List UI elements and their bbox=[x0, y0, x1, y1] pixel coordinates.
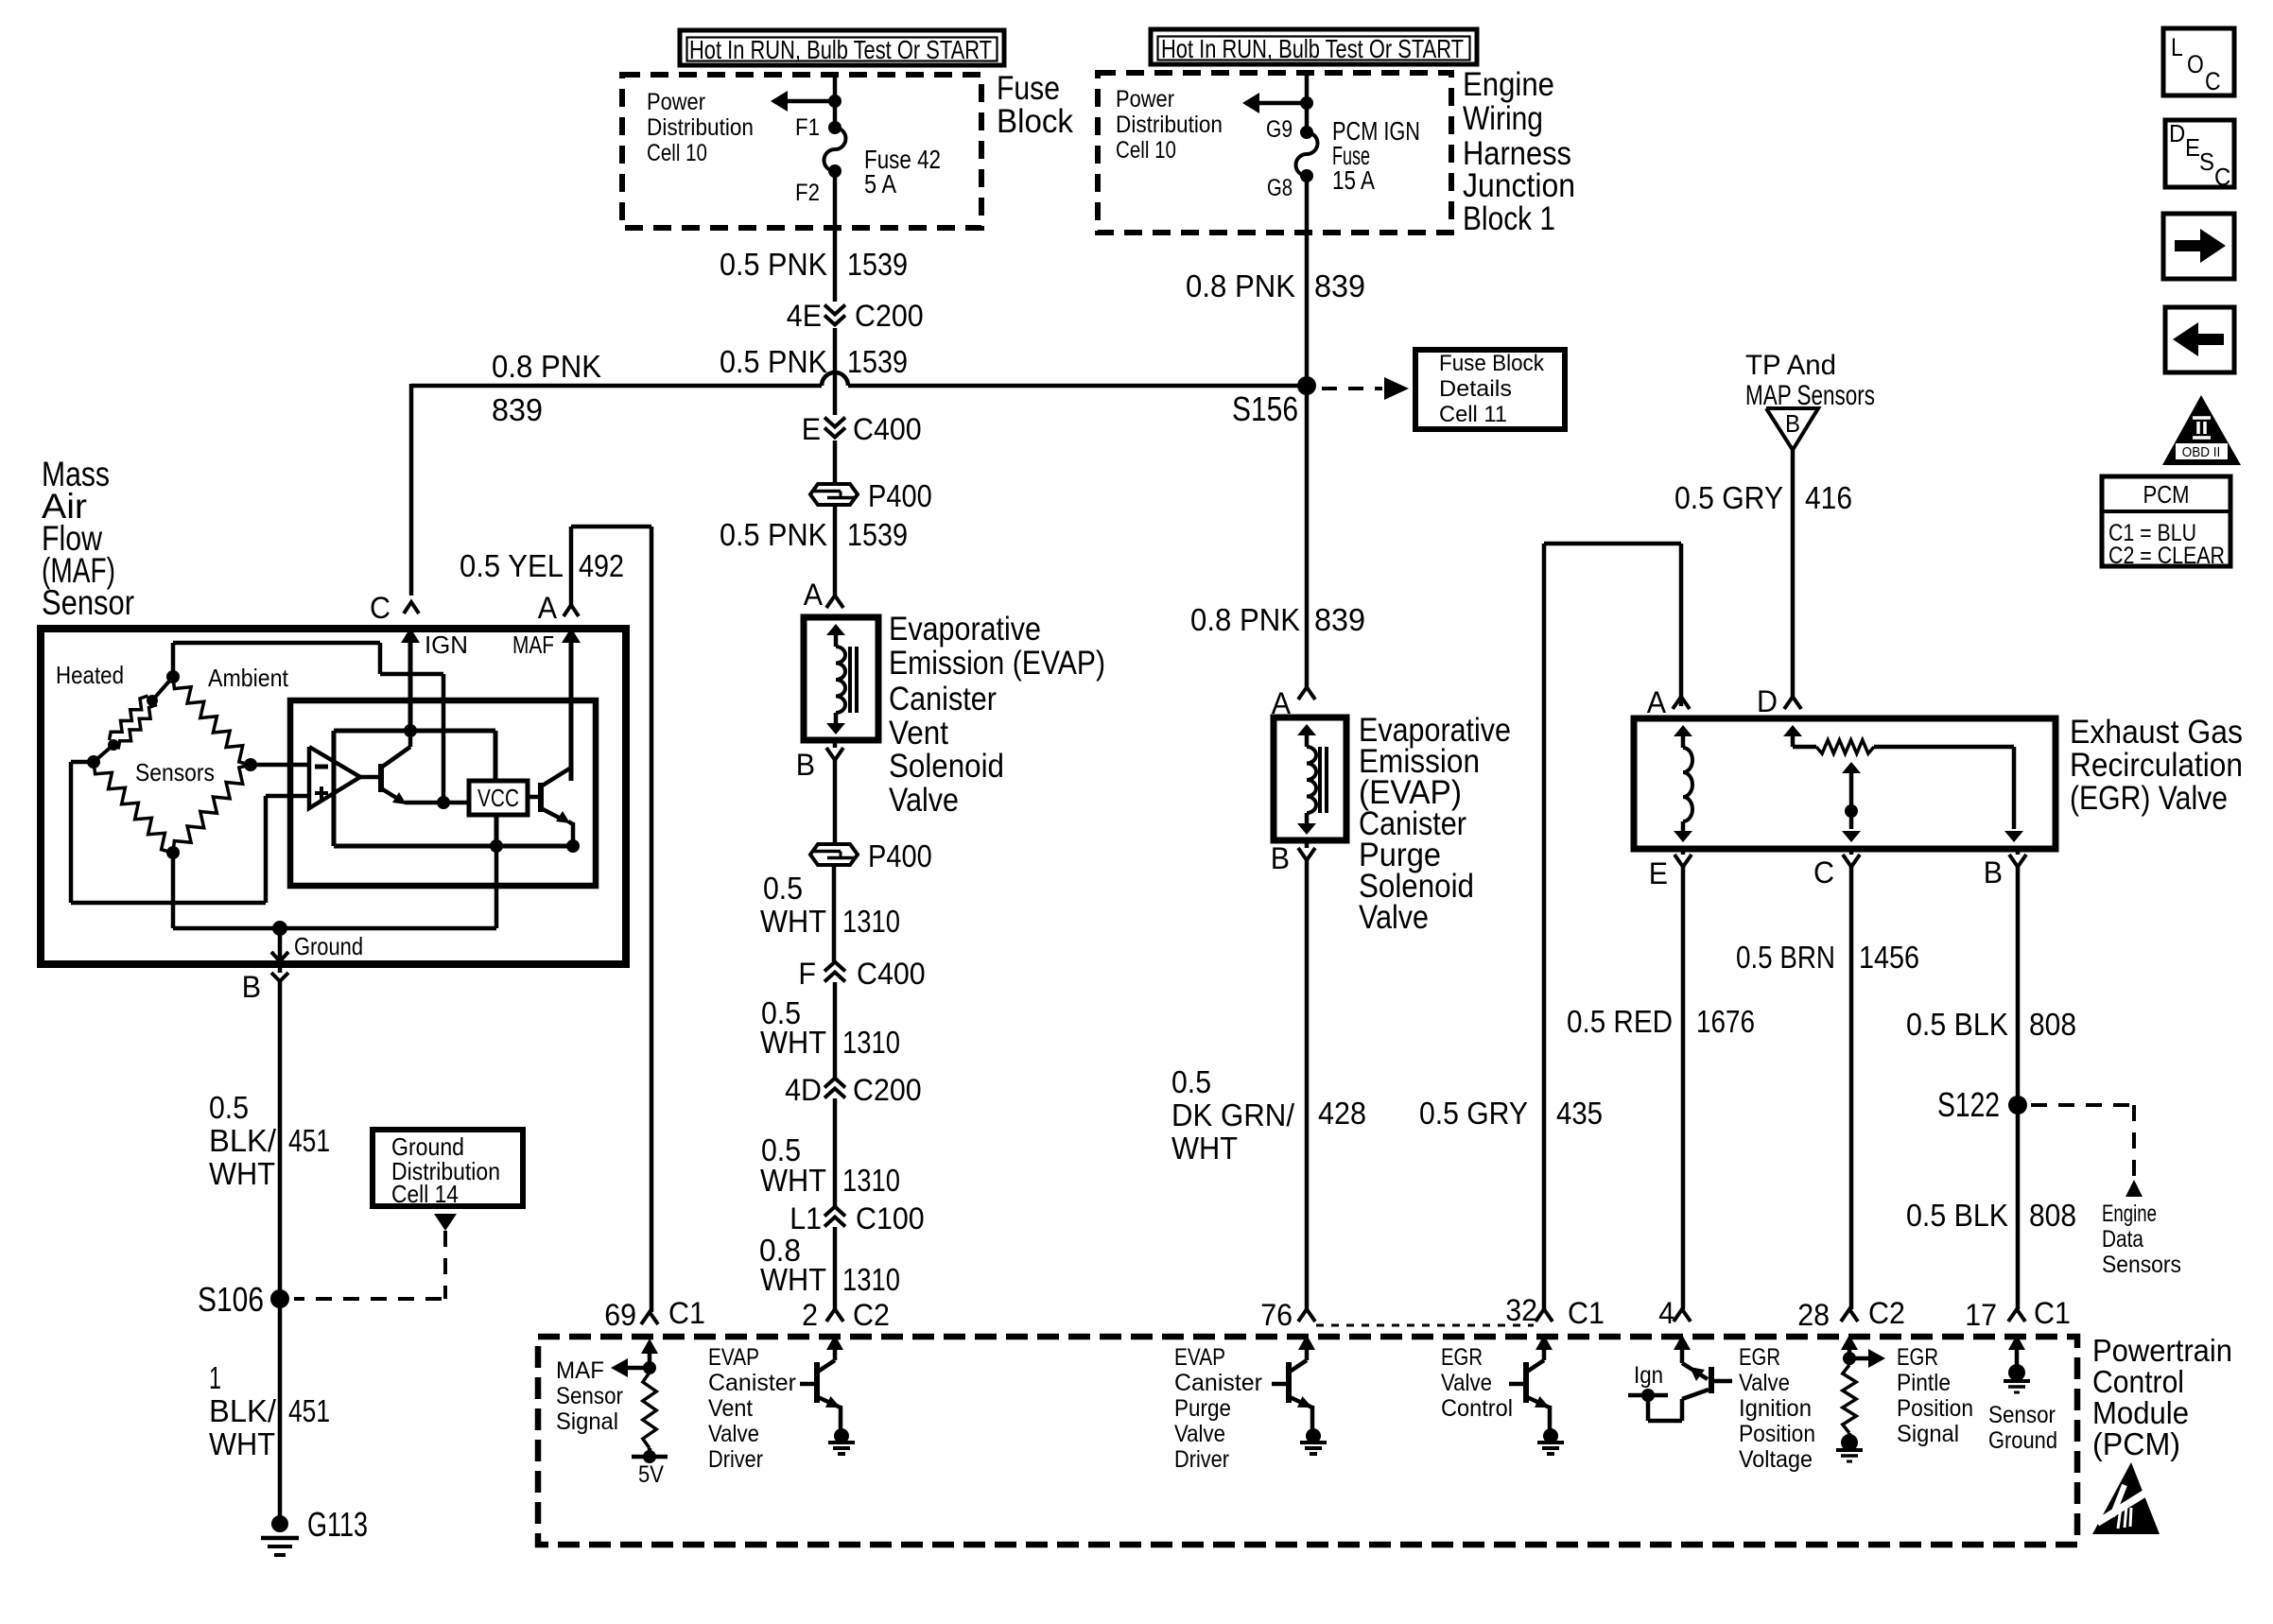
svg-text:1676: 1676 bbox=[1696, 1004, 1755, 1039]
svg-text:OBD II: OBD II bbox=[2182, 444, 2221, 460]
EVAP canister purge solenoid valve box bbox=[1274, 717, 1346, 840]
svg-text:4D: 4D bbox=[785, 1073, 822, 1107]
label Power Distribution Cell 10 (fuse block) bbox=[647, 89, 754, 166]
bridge node left bbox=[87, 755, 100, 769]
splice S122 bbox=[1937, 1085, 2027, 1124]
label EVAP Canister Purge Valve Driver bbox=[1174, 1344, 1262, 1473]
svg-text:Purge: Purge bbox=[1174, 1395, 1231, 1422]
svg-text:G8: G8 bbox=[1267, 175, 1293, 201]
svg-text:IGN: IGN bbox=[425, 631, 468, 659]
bridge node bottom bbox=[166, 846, 180, 859]
svg-text:B: B bbox=[796, 748, 815, 782]
dashed link cell14 to S106 bbox=[294, 1231, 445, 1299]
svg-text:Sensor: Sensor bbox=[42, 583, 134, 622]
wire 1 BLK/WHT 451 bbox=[278, 1299, 283, 1524]
op-amp U1 bbox=[309, 747, 360, 808]
svg-text:Driver: Driver bbox=[1174, 1446, 1229, 1473]
svg-text:Voltage: Voltage bbox=[1739, 1446, 1813, 1473]
terminal A EVAP vent bbox=[804, 578, 843, 612]
terminal C EGR bbox=[1813, 849, 1860, 890]
prev arrow icon bbox=[2165, 307, 2234, 372]
svg-text:B: B bbox=[242, 970, 261, 1004]
junction emitter rail bbox=[437, 796, 450, 809]
PCM dashed box bbox=[538, 1337, 2077, 1545]
svg-text:D: D bbox=[1757, 684, 1778, 718]
wire 0.8 PNK 839 G8 to S156 bbox=[1305, 176, 1310, 386]
wire 0.5 PNK 1539 fuse to C200 bbox=[833, 171, 838, 302]
label 0.5 PNK 1539 (1) bbox=[720, 247, 908, 282]
EVAP canister vent solenoid valve box bbox=[804, 617, 878, 740]
svg-text:5 A: 5 A bbox=[864, 169, 896, 199]
svg-text:32: 32 bbox=[1505, 1293, 1537, 1327]
resistor bridge lower-right bbox=[173, 765, 251, 853]
svg-text:Power: Power bbox=[647, 89, 705, 115]
TP and MAP sensors label bbox=[1745, 350, 1875, 411]
wire 0.8 WHT 1310 (d) bbox=[833, 1227, 838, 1309]
EGR pot right lead bbox=[1874, 747, 2023, 842]
label 0.5 GRY 435 bbox=[1419, 1096, 1603, 1131]
svg-text:Ignition: Ignition bbox=[1739, 1395, 1812, 1422]
svg-text:Canister: Canister bbox=[1174, 1370, 1262, 1396]
svg-text:Sensor: Sensor bbox=[1988, 1402, 2056, 1428]
svg-text:EVAP: EVAP bbox=[708, 1344, 759, 1371]
fuse block dashed box bbox=[622, 75, 981, 228]
label 0.5 BRN 1456 bbox=[1736, 940, 1919, 975]
vent solenoid core bbox=[850, 647, 857, 713]
svg-text:1539: 1539 bbox=[847, 344, 908, 379]
label Exhaust Gas Recirculation (EGR) Valve bbox=[2070, 714, 2243, 817]
connector P400 (2) bbox=[810, 838, 932, 873]
svg-text:C: C bbox=[2205, 67, 2221, 95]
svg-text:C1: C1 bbox=[668, 1296, 705, 1330]
svg-text:76: 76 bbox=[1260, 1298, 1293, 1332]
ESD warning symbol bbox=[2092, 1462, 2160, 1534]
svg-text:15 A: 15 A bbox=[1332, 165, 1375, 195]
svg-text:Fuse Block: Fuse Block bbox=[1439, 351, 1545, 376]
svg-text:EGR: EGR bbox=[1441, 1344, 1483, 1371]
svg-text:Engine: Engine bbox=[1463, 66, 1554, 103]
svg-text:PCM: PCM bbox=[2143, 480, 2190, 509]
label Evaporative Emission (EVAP) Canister Vent Solenoid Valve bbox=[889, 611, 1105, 819]
pin 2 C2 bbox=[802, 1298, 890, 1332]
hot-in-run label box 2 bbox=[1151, 29, 1477, 64]
purge solenoid core bbox=[1320, 747, 1327, 813]
svg-text:Valve: Valve bbox=[1739, 1370, 1790, 1396]
wire bridge left node to op-amp plus bbox=[71, 762, 309, 903]
transistor EGR ignition voltage (PNP) bbox=[1628, 1335, 1732, 1421]
svg-text:Details: Details bbox=[1439, 376, 1512, 402]
wire vent B to P400 bbox=[833, 760, 838, 842]
svg-text:839: 839 bbox=[1314, 602, 1365, 637]
label Power Distribution Cell 10 (junction block) bbox=[1116, 86, 1223, 164]
svg-text:S122: S122 bbox=[1937, 1085, 2000, 1124]
svg-text:Hot In RUN, Bulb Test Or START: Hot In RUN, Bulb Test Or START bbox=[1161, 34, 1464, 63]
label Evaporative Emission (EVAP) Canister Purge Solenoid Valve bbox=[1359, 712, 1511, 936]
wire bridge bottom to ground bus bbox=[173, 853, 280, 928]
svg-text:C1: C1 bbox=[2034, 1296, 2071, 1330]
wire 0.5 BRN 1456 EGR C to pin 28 bbox=[1849, 867, 1854, 1309]
arrow to power distribution cell 10 bbox=[771, 91, 842, 112]
label 0.5 YEL 492 bbox=[460, 548, 624, 583]
svg-text:O: O bbox=[2187, 50, 2204, 78]
wire pcm-ign feed from hot bus bbox=[1305, 73, 1310, 132]
svg-text:E: E bbox=[2185, 133, 2200, 162]
svg-text:WHT: WHT bbox=[760, 1163, 826, 1198]
transistor Q1 bbox=[360, 731, 469, 804]
terminal A EVAP purge bbox=[1272, 686, 1315, 720]
terminal B EGR bbox=[1984, 849, 2026, 890]
svg-text:F: F bbox=[798, 957, 816, 991]
svg-text:Emission (EVAP): Emission (EVAP) bbox=[889, 645, 1105, 682]
wire C400 to P400 bbox=[833, 441, 838, 482]
svg-text:DK GRN/: DK GRN/ bbox=[1171, 1097, 1295, 1132]
svg-text:Fuse: Fuse bbox=[997, 70, 1060, 107]
svg-text:0.5 RED: 0.5 RED bbox=[1567, 1004, 1673, 1039]
label 1 BLK/WHT 451 (2) bbox=[209, 1360, 330, 1461]
resistor heated (parallel pair) bbox=[94, 677, 173, 762]
label Heated bbox=[56, 661, 124, 689]
svg-text:S156: S156 bbox=[1232, 389, 1298, 428]
svg-text:0.5 BLK: 0.5 BLK bbox=[1906, 1198, 2008, 1233]
svg-text:S106: S106 bbox=[198, 1280, 264, 1319]
wire 0.5 BLK/WHT 451 bbox=[278, 981, 283, 1299]
wire 0.5 RED 1676 EGR E to pin 4 bbox=[1681, 867, 1686, 1309]
svg-text:EGR: EGR bbox=[1739, 1344, 1780, 1371]
svg-text:808: 808 bbox=[2029, 1007, 2076, 1042]
svg-text:D: D bbox=[2169, 119, 2185, 147]
svg-text:Pintle: Pintle bbox=[1897, 1370, 1951, 1396]
arrow to power distribution cell 10 (2) bbox=[1242, 93, 1313, 113]
label EGR Valve Control bbox=[1441, 1344, 1513, 1422]
VCC box U2 bbox=[469, 781, 528, 815]
svg-text:Valve: Valve bbox=[708, 1421, 759, 1447]
svg-text:Solenoid: Solenoid bbox=[889, 748, 1004, 785]
svg-text:C200: C200 bbox=[855, 299, 924, 333]
svg-text:C2: C2 bbox=[1868, 1296, 1905, 1330]
wire 0.5 BLK 808 EGR B to pin 17 bbox=[2016, 867, 2021, 1309]
ground G113 bbox=[261, 1505, 368, 1555]
svg-text:Valve: Valve bbox=[1174, 1421, 1225, 1447]
svg-text:MAF: MAF bbox=[512, 631, 554, 659]
wire 0.5 WHT 1310 (a) bbox=[832, 867, 837, 961]
terminal B EVAP vent bbox=[796, 740, 843, 782]
svg-text:839: 839 bbox=[1314, 268, 1365, 303]
ground junction and arrow bbox=[271, 921, 363, 961]
svg-text:C2 = CLEAR: C2 = CLEAR bbox=[2108, 543, 2225, 569]
svg-text:Powertrain: Powertrain bbox=[2092, 1333, 2232, 1368]
wire fuse42 feed from hot bus bbox=[833, 75, 838, 128]
svg-text:A: A bbox=[1647, 685, 1667, 719]
pin 69 C1 bbox=[604, 1296, 705, 1332]
svg-text:BLK/: BLK/ bbox=[209, 1393, 277, 1428]
junction block dashed box bbox=[1098, 73, 1451, 233]
svg-text:0.8 PNK: 0.8 PNK bbox=[1186, 268, 1295, 303]
svg-text:428: 428 bbox=[1318, 1096, 1366, 1131]
label Engine Data Sensors bbox=[2102, 1201, 2181, 1278]
label 0.5 BLK 808 (1) bbox=[1906, 1007, 2076, 1042]
svg-text:F2: F2 bbox=[795, 180, 820, 206]
svg-text:Cell 10: Cell 10 bbox=[1116, 137, 1176, 164]
wire 0.5 YEL 492 down to pin 69 bbox=[650, 527, 654, 1312]
EGR solenoid coil bbox=[1674, 725, 1692, 842]
svg-text:B: B bbox=[1271, 841, 1290, 875]
pin F1 bbox=[795, 114, 842, 141]
pin 17 C1 bbox=[1965, 1296, 2071, 1332]
connector row dashes 76-32 bbox=[1316, 1324, 1534, 1327]
svg-text:Position: Position bbox=[1739, 1421, 1815, 1447]
svg-text:F1: F1 bbox=[795, 114, 820, 141]
label 0.5 WHT 1310 (2) bbox=[760, 995, 900, 1060]
svg-text:0.5 BRN: 0.5 BRN bbox=[1736, 940, 1835, 975]
label 0.8 PNK 839 (low) bbox=[1190, 602, 1365, 637]
fuse F42 element bbox=[824, 128, 846, 171]
MAF sensor box bbox=[41, 629, 626, 964]
PCM connector legend bbox=[2102, 476, 2230, 569]
fuse PCM IGN element bbox=[1296, 132, 1318, 176]
svg-text:Module: Module bbox=[2092, 1395, 2189, 1430]
connector 4E C200 bbox=[787, 299, 924, 333]
svg-text:4E: 4E bbox=[787, 299, 822, 333]
svg-text:808: 808 bbox=[2029, 1198, 2076, 1233]
svg-text:Cell 10: Cell 10 bbox=[647, 140, 707, 166]
transistor EGR valve control driver bbox=[1509, 1335, 1564, 1454]
arrow MAF sensor signal bbox=[611, 1358, 656, 1377]
wire 0.5 DK GRN/WHT 428 bbox=[1305, 860, 1310, 1309]
svg-text:0.5: 0.5 bbox=[763, 871, 803, 906]
svg-text:Control: Control bbox=[2092, 1364, 2184, 1399]
hot-in-run label box 1 bbox=[680, 30, 1004, 65]
label Mass Air Flow (MAF) Sensor bbox=[42, 455, 134, 622]
svg-text:P400: P400 bbox=[868, 478, 932, 513]
svg-text:Signal: Signal bbox=[1897, 1421, 1959, 1447]
svg-text:Block 1: Block 1 bbox=[1463, 200, 1555, 237]
label Engine Wiring Harness Junction Block 1 bbox=[1463, 66, 1575, 237]
LOC icon bbox=[2163, 28, 2234, 95]
wire 0.5 PNK 1539 C200 to bus bbox=[833, 328, 838, 372]
wire 0.5 WHT 1310 (b) bbox=[833, 982, 838, 1078]
label EGR Valve Ignition Position Voltage bbox=[1739, 1344, 1815, 1473]
svg-text:Heated: Heated bbox=[56, 661, 124, 689]
svg-text:Sensors: Sensors bbox=[135, 758, 215, 786]
svg-text:C400: C400 bbox=[857, 957, 926, 991]
wire EGR A to PCM pin 32 bbox=[1544, 544, 1681, 1309]
connector F C400 bbox=[798, 957, 925, 991]
svg-text:Data: Data bbox=[2102, 1226, 2143, 1253]
svg-text:C: C bbox=[370, 591, 390, 625]
fuse block details cell 11 box bbox=[1415, 350, 1565, 429]
label 0.5 PNK 1539 (3) bbox=[720, 517, 908, 552]
svg-text:Distribution: Distribution bbox=[647, 114, 754, 141]
ground distribution cell 14 box bbox=[373, 1130, 523, 1208]
svg-text:WHT: WHT bbox=[209, 1156, 275, 1191]
label 0.8 WHT 1310 (4) bbox=[759, 1233, 900, 1297]
resistor bridge lower-left bbox=[94, 762, 173, 853]
svg-text:C: C bbox=[1813, 855, 1834, 890]
svg-text:0.5 BLK: 0.5 BLK bbox=[1906, 1007, 2008, 1042]
label 0.5 BLK/WHT 451 (1) bbox=[209, 1090, 330, 1191]
IGN arrow inside MAF bbox=[401, 628, 468, 731]
wire 0.5 WHT 1310 (c) bbox=[833, 1098, 838, 1206]
svg-text:Junction: Junction bbox=[1463, 167, 1575, 204]
svg-text:Power: Power bbox=[1116, 86, 1174, 112]
svg-text:C1: C1 bbox=[1568, 1296, 1605, 1330]
wire 0.5 GRY 416 to EGR D bbox=[1791, 450, 1796, 697]
svg-text:B: B bbox=[1785, 409, 1800, 438]
svg-text:Exhaust Gas: Exhaust Gas bbox=[2070, 714, 2243, 751]
label 0.5 RED 1676 bbox=[1567, 1004, 1755, 1039]
EGR potentiometer R2 bbox=[1816, 740, 1874, 753]
label Fuse 42 5 A bbox=[864, 145, 941, 199]
svg-text:G9: G9 bbox=[1266, 116, 1293, 143]
sensor ground symbol bbox=[2004, 1335, 2030, 1392]
svg-text:839: 839 bbox=[492, 392, 543, 427]
svg-text:492: 492 bbox=[579, 548, 624, 583]
svg-text:A: A bbox=[804, 578, 824, 612]
svg-text:Signal: Signal bbox=[556, 1408, 618, 1435]
svg-text:VCC: VCC bbox=[477, 784, 519, 812]
svg-text:Valve: Valve bbox=[889, 782, 959, 819]
svg-text:EVAP: EVAP bbox=[1174, 1344, 1225, 1371]
svg-text:WHT: WHT bbox=[209, 1426, 275, 1461]
transistor EVAP vent valve driver bbox=[800, 1335, 855, 1454]
label 0.8 PNK 839 (left) bbox=[492, 349, 601, 427]
svg-text:S: S bbox=[2199, 147, 2214, 176]
EGR pintle position pull-down R bbox=[1836, 1335, 1885, 1461]
bridge node top bbox=[166, 670, 180, 683]
svg-text:Recirculation: Recirculation bbox=[2070, 747, 2243, 784]
svg-text:C400: C400 bbox=[853, 412, 922, 446]
label 0.5 DK GRN/WHT 428 bbox=[1171, 1064, 1366, 1166]
svg-text:L1: L1 bbox=[789, 1201, 822, 1235]
dashed arrow to fuse block details bbox=[1322, 377, 1409, 400]
transistor EVAP purge valve driver bbox=[1272, 1335, 1327, 1454]
svg-text:EGR: EGR bbox=[1897, 1344, 1938, 1371]
svg-text:0.8 PNK: 0.8 PNK bbox=[1190, 602, 1300, 637]
EGR pot wiper bbox=[1842, 762, 1861, 842]
off-page triangle B bbox=[1766, 408, 1818, 450]
amplifier bottom rail bbox=[334, 815, 580, 853]
label PCM IGN Fuse 15 A bbox=[1332, 116, 1420, 195]
terminal D EGR bbox=[1757, 684, 1801, 718]
svg-text:2: 2 bbox=[802, 1298, 818, 1332]
svg-text:451: 451 bbox=[288, 1393, 330, 1428]
svg-text:416: 416 bbox=[1805, 480, 1852, 515]
svg-text:17: 17 bbox=[1965, 1298, 1997, 1332]
svg-text:0.5: 0.5 bbox=[209, 1090, 249, 1125]
svg-text:Ign: Ign bbox=[1634, 1362, 1663, 1389]
splice S106 bbox=[198, 1280, 289, 1319]
svg-text:451: 451 bbox=[288, 1123, 330, 1158]
svg-text:Distribution: Distribution bbox=[1116, 112, 1223, 138]
svg-text:1310: 1310 bbox=[842, 904, 900, 939]
svg-text:28: 28 bbox=[1797, 1298, 1830, 1332]
svg-text:5V: 5V bbox=[638, 1461, 664, 1488]
svg-text:(EGR) Valve: (EGR) Valve bbox=[2070, 780, 2228, 817]
svg-text:1310: 1310 bbox=[842, 1163, 900, 1198]
svg-text:Vent: Vent bbox=[708, 1395, 753, 1422]
svg-text:0.5: 0.5 bbox=[1171, 1064, 1211, 1099]
svg-text:G113: G113 bbox=[307, 1505, 368, 1544]
svg-text:Valve: Valve bbox=[1359, 899, 1429, 936]
svg-text:Evaporative: Evaporative bbox=[889, 611, 1041, 648]
svg-text:Valve: Valve bbox=[1441, 1370, 1492, 1396]
svg-text:Block: Block bbox=[997, 103, 1073, 140]
label Fuse Block bbox=[997, 70, 1073, 140]
svg-text:0.5 PNK: 0.5 PNK bbox=[720, 247, 827, 282]
svg-text:WHT: WHT bbox=[760, 1262, 826, 1297]
svg-text:P400: P400 bbox=[868, 838, 932, 873]
EGR pot feed bbox=[1783, 725, 1816, 747]
label 0.5 GRY 416 bbox=[1674, 480, 1852, 515]
svg-text:0.5 PNK: 0.5 PNK bbox=[720, 517, 827, 552]
purge solenoid coil L2 bbox=[1297, 724, 1316, 835]
connector 4D C200 bbox=[785, 1073, 922, 1107]
next arrow icon bbox=[2163, 214, 2234, 279]
svg-text:4: 4 bbox=[1658, 1296, 1674, 1330]
wire ground bus to inner box bbox=[280, 846, 496, 928]
svg-text:Hot In RUN, Bulb Test Or START: Hot In RUN, Bulb Test Or START bbox=[689, 35, 992, 64]
resistor ambient bbox=[173, 677, 251, 765]
svg-text:Vent: Vent bbox=[889, 715, 948, 752]
terminal E EGR bbox=[1649, 849, 1692, 890]
svg-text:BLK/: BLK/ bbox=[209, 1123, 277, 1158]
splice S156 bbox=[1232, 376, 1316, 428]
pin G8 bbox=[1267, 169, 1313, 201]
svg-text:(PCM): (PCM) bbox=[2092, 1426, 2180, 1461]
svg-text:Ground: Ground bbox=[294, 932, 363, 960]
label Sensors bbox=[135, 758, 215, 786]
OBD II icon bbox=[2162, 395, 2241, 465]
svg-text:1456: 1456 bbox=[1859, 940, 1919, 975]
svg-text:MAF: MAF bbox=[556, 1357, 604, 1384]
label Powertrain Control Module (PCM) bbox=[2092, 1333, 2232, 1461]
svg-text:1310: 1310 bbox=[842, 1262, 900, 1297]
svg-text:1310: 1310 bbox=[842, 1025, 900, 1060]
svg-text:C200: C200 bbox=[853, 1073, 922, 1107]
svg-text:TP And: TP And bbox=[1745, 350, 1836, 381]
pin 4 bbox=[1658, 1296, 1691, 1330]
DESC icon bbox=[2165, 119, 2234, 191]
svg-text:Sensor: Sensor bbox=[556, 1383, 623, 1409]
svg-text:WHT: WHT bbox=[760, 1025, 826, 1060]
label Ign bbox=[1634, 1362, 1663, 1389]
wire bridge right node to op-amp minus bbox=[251, 763, 309, 768]
svg-text:Cell 11: Cell 11 bbox=[1439, 402, 1507, 427]
connector L1 C100 bbox=[789, 1201, 925, 1235]
svg-text:435: 435 bbox=[1556, 1096, 1603, 1131]
dashed link S122 to engine data sensors bbox=[2031, 1105, 2143, 1197]
svg-text:C2: C2 bbox=[853, 1298, 890, 1332]
terminal B MAF bbox=[242, 968, 288, 1004]
connector P400 (1) bbox=[810, 478, 932, 513]
MAF arrow inside MAF bbox=[512, 628, 581, 781]
svg-text:Wiring: Wiring bbox=[1463, 100, 1543, 137]
pin G9 bbox=[1266, 116, 1313, 143]
pin 32 C1 bbox=[1505, 1293, 1605, 1330]
svg-text:WHT: WHT bbox=[760, 904, 826, 939]
svg-text:1: 1 bbox=[209, 1360, 221, 1395]
svg-text:L: L bbox=[2171, 33, 2183, 61]
label 0.5 WHT 1310 (1) bbox=[760, 871, 900, 939]
svg-text:0.8 PNK: 0.8 PNK bbox=[492, 349, 601, 384]
label EVAP Canister Vent Valve Driver bbox=[708, 1344, 796, 1473]
svg-text:Canister: Canister bbox=[889, 681, 997, 717]
wire 0.5 YEL 492 MAF A to elbow bbox=[571, 527, 651, 609]
svg-text:C: C bbox=[2214, 163, 2230, 191]
transistor Q2 bbox=[528, 639, 573, 846]
svg-text:1539: 1539 bbox=[847, 517, 908, 552]
terminal A EGR bbox=[1647, 685, 1690, 719]
